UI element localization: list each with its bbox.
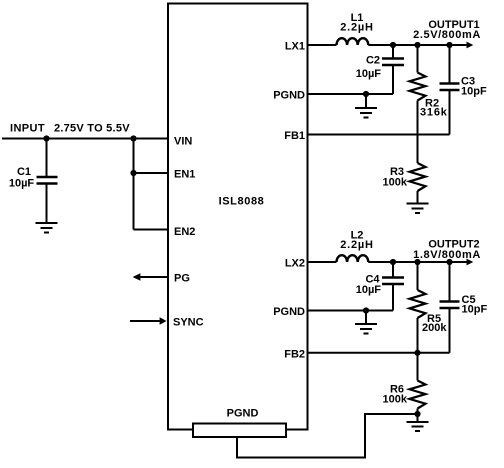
wire EN1 [134, 172, 169, 174]
resistor R2 [410, 45, 448, 135]
ground under C1 [36, 223, 58, 233]
wire PGND1 [307, 93, 393, 95]
svg-text:PGND: PGND [273, 306, 305, 318]
op-amp U1 ISL8088 IC box [168, 4, 308, 430]
resistor R3 [383, 135, 426, 204]
svg-text:FB2: FB2 [284, 348, 305, 360]
wire INPUT rail [2, 138, 168, 140]
svg-text:2.75V TO 5.5V: 2.75V TO 5.5V [54, 123, 130, 135]
node PGND1 ground junction [363, 91, 369, 97]
svg-text:SYNC: SYNC [173, 317, 204, 329]
node FB2 junction [414, 350, 420, 356]
svg-text:2.2µH: 2.2µH [340, 239, 374, 251]
wire PGND2 [307, 310, 393, 312]
resistor R6 [383, 353, 426, 414]
svg-text:1.8V/800mA: 1.8V/800mA [413, 249, 481, 261]
node input/C1 junction [43, 135, 49, 141]
svg-text:INPUT: INPUT [10, 123, 45, 135]
ground under R3 [407, 204, 429, 214]
wire SYNC arrow [130, 320, 160, 322]
capacitor C1 [9, 139, 58, 224]
svg-text:VIN: VIN [174, 136, 192, 148]
svg-text:C2: C2 [366, 55, 380, 67]
node EN branch junction [130, 135, 136, 141]
node C4 junction [390, 259, 396, 265]
svg-text:10µF: 10µF [356, 284, 382, 296]
node C2 junction [390, 42, 396, 48]
svg-text:ISL8088: ISL8088 [219, 196, 265, 208]
node EN1 junction [130, 170, 136, 176]
svg-text:PGND: PGND [273, 90, 305, 102]
capacitor C5 [440, 262, 488, 353]
svg-text:10µF: 10µF [9, 178, 35, 190]
node C5 junction [446, 259, 452, 265]
svg-text:2.2µH: 2.2µH [340, 22, 374, 34]
svg-text:10pF: 10pF [462, 304, 488, 316]
svg-text:LX1: LX1 [285, 41, 305, 53]
node R5 junction [414, 259, 420, 265]
wire FB1 [307, 134, 450, 136]
capacitor C2 [356, 45, 404, 94]
svg-text:10µF: 10µF [356, 68, 382, 80]
svg-text:100k: 100k [383, 177, 408, 189]
ground under R6 [407, 414, 429, 431]
svg-text:LX2: LX2 [285, 258, 305, 270]
node R2 junction [414, 42, 420, 48]
wire PGND return path [237, 414, 418, 458]
wire FB2 [307, 352, 450, 354]
ground under PGND2 [355, 311, 377, 334]
svg-text:FB1: FB1 [284, 130, 305, 142]
svg-text:C1: C1 [17, 166, 31, 178]
svg-text:100k: 100k [383, 394, 408, 406]
wire EN vertical branch [133, 139, 135, 230]
capacitor C3 [440, 45, 487, 135]
resistor R5 [410, 262, 448, 353]
wire LX2 output rail [307, 261, 467, 263]
svg-text:2.5V/800mA: 2.5V/800mA [413, 29, 481, 41]
svg-text:316k: 316k [420, 107, 448, 119]
ground under PGND1 [355, 94, 377, 118]
node PGND2 ground junction [363, 307, 369, 313]
arrow OUTPUT1 [467, 42, 474, 49]
svg-text:PGND: PGND [227, 408, 259, 420]
svg-text:200k: 200k [422, 322, 447, 334]
arrow OUTPUT2 [467, 259, 474, 266]
svg-text:10pF: 10pF [461, 86, 487, 98]
node C3 junction [446, 42, 452, 48]
wire LX1 output rail [307, 44, 467, 46]
wire PG arrow [140, 276, 168, 278]
inductor L1 [337, 38, 369, 45]
capacitor C4 [356, 262, 404, 311]
svg-text:PG: PG [174, 273, 190, 285]
inductor L2 [337, 255, 369, 262]
wire EN2 [134, 229, 169, 231]
svg-text:EN2: EN2 [174, 226, 195, 238]
node R6 bottom junction [414, 411, 420, 417]
svg-text:EN1: EN1 [174, 169, 195, 181]
PGND exposed pad rectangle [193, 424, 286, 438]
